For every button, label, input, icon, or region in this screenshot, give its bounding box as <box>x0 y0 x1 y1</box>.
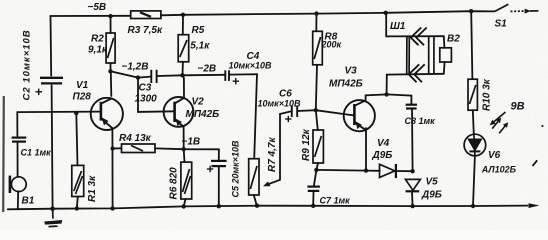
wire R6 upper lead <box>183 149 186 162</box>
wire -2V node to C4 <box>183 74 225 77</box>
wire plug lower return to collector node <box>387 74 444 95</box>
wire B2 upper stub <box>443 36 446 48</box>
stray speck <box>541 125 543 127</box>
svg-text:R9 12к: R9 12к <box>301 128 312 161</box>
transistor V3 MP42B <box>344 99 375 131</box>
svg-text:1300: 1300 <box>135 94 158 105</box>
capacitor C4 polarity plus <box>233 78 239 84</box>
transistor V1 P28 <box>91 98 123 130</box>
svg-text:R5: R5 <box>192 25 205 36</box>
svg-text:R10 3к: R10 3к <box>482 78 493 111</box>
wire V3 emitter vertical <box>365 128 367 171</box>
wire R4 left lead <box>113 147 122 149</box>
wire C1 lower lead to B1 <box>17 143 19 177</box>
wire C6 branch from R7 line <box>280 111 291 180</box>
transistor V2 MP42B <box>164 97 194 127</box>
svg-text:V5: V5 <box>426 177 439 188</box>
wire node -1,2V horizontal to C3 <box>111 71 151 77</box>
diode V4 D9B <box>380 164 396 178</box>
svg-text:Д9Б: Д9Б <box>372 150 393 161</box>
arrowhead for C6 pointer onto R7 <box>263 182 271 187</box>
wire V5 lower lead to ground rail <box>411 192 414 207</box>
svg-text:−1,2В: −1,2В <box>122 62 149 73</box>
svg-text:−1В: −1В <box>182 137 201 148</box>
svg-text:C1 1мк: C1 1мк <box>21 148 52 158</box>
wire C2 lower lead <box>52 85 53 208</box>
wire bottom ground rail <box>8 206 528 210</box>
svg-text:C2 10мк×10В: C2 10мк×10В <box>22 29 33 100</box>
wire R5 lower lead <box>182 62 184 76</box>
capacitor C6 polarity plus <box>285 116 291 122</box>
svg-text:Д9Б: Д9Б <box>421 190 442 201</box>
connector Sh1 lower contact chevron <box>409 64 425 82</box>
wire V1 emitter vertical to ground rail <box>111 128 113 208</box>
wire V2 emitter lead <box>183 127 185 150</box>
capacitor C2 10mk x 10V plates <box>40 78 63 84</box>
wire V2 collector lead <box>183 75 185 97</box>
wire C4 right to R7 corner <box>230 74 258 159</box>
wire R9 lower lead <box>316 163 318 170</box>
svg-text:АЛ102Б: АЛ102Б <box>481 165 517 175</box>
wire R10 upper lead from rail <box>471 11 472 79</box>
wire R10 lower lead to V6 <box>473 110 474 134</box>
wire collector node to C8 <box>387 94 412 104</box>
svg-text:В1: В1 <box>22 196 35 207</box>
svg-text:МП42Б: МП42Б <box>329 79 363 90</box>
wire R8 lower lead to base node <box>316 65 317 110</box>
wire C7 lower lead <box>312 192 314 206</box>
svg-text:Ш1: Ш1 <box>390 21 406 32</box>
svg-text:10мк×10В: 10мк×10В <box>258 99 301 109</box>
wire V3 collector vertical and horizontal <box>366 94 387 99</box>
svg-text:П28: П28 <box>73 92 92 103</box>
svg-text:200к: 200к <box>321 40 342 50</box>
wire emitter line to V4 <box>316 169 379 172</box>
connector Sh1 socket bars <box>429 36 434 74</box>
svg-text:9,1к: 9,1к <box>88 45 108 56</box>
connector Sh1 upper contact chevron <box>411 28 427 46</box>
supply 9V annotation arrow <box>490 112 506 125</box>
wire C5 lower lead <box>218 167 220 206</box>
svg-text:R2: R2 <box>91 34 104 45</box>
capacitor C1 1mk plates <box>12 138 27 142</box>
svg-text:V6: V6 <box>488 150 501 161</box>
svg-text:C3: C3 <box>139 83 152 94</box>
svg-text:V2: V2 <box>192 97 205 108</box>
wire R5 upper lead from rail <box>182 15 184 35</box>
wire V6 lower lead to ground rail <box>473 156 475 206</box>
earphone B2 <box>440 48 452 62</box>
capacitor C7 1mk plates <box>307 187 320 191</box>
page crease line at left edge <box>2 96 5 212</box>
ground rail right end arrow <box>529 203 540 208</box>
wire V3 base wire <box>316 110 355 115</box>
capacitor C8 1mk plates <box>406 105 417 109</box>
resistor R2 9,1k <box>106 33 115 63</box>
resistor R5 5,1k <box>178 35 189 62</box>
svg-text:−5В: −5В <box>88 2 107 13</box>
wire C5 upper lead <box>218 149 220 160</box>
svg-text:V3: V3 <box>345 66 358 77</box>
wire V2 base branch <box>138 78 175 112</box>
svg-text:R4 13к: R4 13к <box>119 133 152 144</box>
svg-text:S1: S1 <box>495 19 508 30</box>
wire R1 lower lead <box>77 197 78 209</box>
svg-text:C7 1мк: C7 1мк <box>320 196 351 206</box>
wire top supply rail right segment <box>161 11 495 15</box>
microphone B1 <box>10 176 26 193</box>
svg-text:−2В: −2В <box>198 64 217 75</box>
capacitor C4 10mk x 10V plates <box>225 70 229 81</box>
wire R8 upper lead from rail <box>315 14 317 32</box>
wire C6 right to V3 base node <box>297 109 315 112</box>
svg-text:C5 20мк×10В: C5 20мк×10В <box>231 140 241 198</box>
wire R4 right lead to -1V node <box>155 147 219 150</box>
resistor R3 7,5k <box>131 11 161 19</box>
wire B1 lower lead to ground rail <box>17 191 19 209</box>
svg-text:R3 7,5к: R3 7,5к <box>128 25 163 36</box>
resistor R9 12k <box>313 130 323 163</box>
svg-text:В2: В2 <box>447 34 460 45</box>
wire R6 lower lead <box>184 199 186 206</box>
resistor R8 200k <box>313 31 323 65</box>
wire R7 lower lead <box>254 195 257 206</box>
resistor R1 3k <box>72 165 84 196</box>
wire R2 upper lead from rail <box>110 16 112 33</box>
wire plug upper feed from rail <box>386 13 444 37</box>
wire R2 lower lead to node <box>110 63 112 71</box>
wire C2 branch from top rail corner down to bottom rail <box>50 16 53 76</box>
svg-text:9В: 9В <box>511 101 525 113</box>
ground symbol <box>44 209 62 227</box>
wire top supply rail left segment <box>51 15 131 17</box>
wire V4 cathode to doubler node <box>396 170 412 172</box>
capacitor C5 polarity plus <box>207 166 213 172</box>
capacitor C2 polarity plus <box>36 89 43 95</box>
capacitor C6 10mk x 10V plates <box>292 106 297 118</box>
wire R1 upper lead <box>76 113 77 165</box>
wire arrow from C6 branch to R7 body <box>267 180 281 185</box>
wire C3 right to -2V node <box>157 74 182 77</box>
wire B2 lower stub <box>443 62 446 74</box>
wire C1 upper lead <box>16 112 18 136</box>
resistor R4 13k <box>122 144 156 153</box>
svg-text:R6 820: R6 820 <box>169 167 180 200</box>
stray pen tick <box>533 160 538 166</box>
svg-text:10мк×10В: 10мк×10В <box>229 61 272 71</box>
capacitor C3 1300 plates <box>151 70 156 83</box>
connector Sh1 plug bar <box>407 36 410 74</box>
wire V1 collector lead <box>110 71 113 96</box>
capacitor C5 20mk x 10V plates <box>211 161 227 166</box>
resistor R7 4,7k <box>249 159 259 195</box>
svg-text:С8 1мк: С8 1мк <box>405 116 436 126</box>
diode V5 D9B <box>405 179 420 191</box>
resistor R6 820 <box>181 162 192 199</box>
LED V6 AL102B <box>464 134 486 156</box>
svg-text:5,1к: 5,1к <box>190 41 210 52</box>
wire R9 upper lead <box>316 110 318 130</box>
svg-text:V4: V4 <box>377 138 390 149</box>
LED V6 emission arrows <box>492 118 508 134</box>
svg-text:МП42Б: МП42Б <box>186 109 220 120</box>
resistor R10 3k <box>468 79 477 110</box>
wire V1 base node horizontal <box>17 111 101 114</box>
svg-text:R1 3к: R1 3к <box>87 175 98 202</box>
wire C8 lower lead to doubler node <box>411 109 414 171</box>
switch S1 <box>495 4 539 13</box>
svg-text:R7 4,7к: R7 4,7к <box>267 137 278 172</box>
wire C7 upper lead <box>314 170 317 186</box>
svg-text:V1: V1 <box>76 80 89 91</box>
